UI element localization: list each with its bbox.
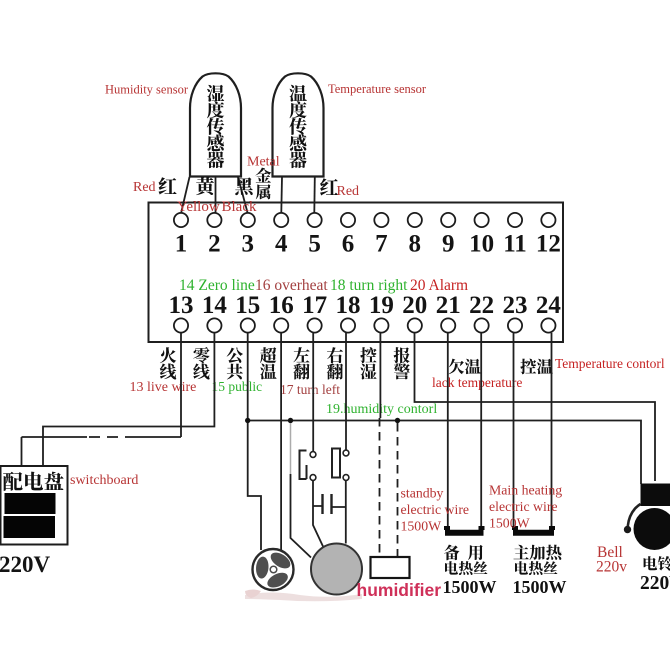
junction dot bus/humidifier — [395, 418, 400, 423]
humidifier box — [371, 557, 410, 578]
label pin 13 — [160, 347, 176, 379]
pin numbers 13-24 — [169, 292, 562, 319]
wire pin19 dashed to humidifier — [379, 418, 381, 556]
label standby heater hanzi line2 — [445, 561, 487, 575]
label black hanzi (pin3) — [235, 177, 253, 195]
label lack-temp hanzi (pins 21-22) — [448, 359, 480, 375]
svg-text:21: 21 — [436, 292, 461, 319]
svg-text:Temperature contorl: Temperature contorl — [555, 356, 665, 371]
svg-text:24: 24 — [536, 292, 562, 319]
switchboard hanzi — [3, 472, 64, 491]
svg-text:1500W: 1500W — [489, 516, 530, 531]
svg-text:1500W: 1500W — [443, 577, 497, 597]
svg-text:1: 1 — [175, 231, 188, 258]
svg-text:electric wire: electric wire — [401, 502, 470, 517]
junction dot pin15/bus — [245, 418, 250, 423]
svg-text:220V: 220V — [0, 552, 51, 577]
wire bus to motor faint upper — [290, 423, 292, 474]
svg-text:switchboard: switchboard — [70, 473, 138, 488]
motor M1 — [311, 544, 362, 595]
svg-text:1500W: 1500W — [513, 577, 567, 597]
common bus wire to bell — [248, 421, 641, 485]
fan F1 body — [253, 549, 294, 590]
wire pin13 to switchboard — [22, 333, 182, 466]
contact circle 17 bottom — [310, 475, 316, 481]
svg-text:electric wire: electric wire — [489, 499, 558, 514]
label red hanzi (pin1) — [159, 177, 177, 194]
svg-text:Main heating: Main heating — [489, 483, 562, 498]
svg-text:11: 11 — [503, 231, 527, 258]
bell B1 top block — [641, 484, 670, 507]
wire pin19 solid — [379, 333, 381, 418]
watermark smudge — [245, 590, 362, 602]
svg-text:14: 14 — [202, 292, 228, 319]
label pin 17 — [293, 347, 309, 379]
svg-text:5: 5 — [308, 231, 321, 258]
label main heater hanzi line1 — [513, 545, 561, 560]
svg-text:15: 15 — [235, 292, 260, 319]
svg-text:Humidity sensor: Humidity sensor — [105, 83, 189, 97]
wire pin15 down to fan — [248, 333, 261, 550]
wire pin21 to heater1 — [447, 333, 449, 530]
svg-text:Red: Red — [337, 184, 360, 199]
humidity sensor wire to pin 3 — [238, 177, 248, 213]
wire pin13 dashed section — [87, 436, 136, 438]
label pin 18 — [327, 347, 343, 379]
switchboard box — [1, 466, 68, 545]
svg-text:16 overheat: 16 overheat — [255, 277, 328, 294]
svg-text:20 Alarm: 20 Alarm — [410, 277, 468, 294]
svg-text:1500W: 1500W — [401, 519, 442, 534]
label main heater hanzi line2 — [515, 561, 557, 575]
svg-text:2: 2 — [208, 231, 221, 258]
svg-text:14 Zero line: 14 Zero line — [179, 277, 255, 294]
temperature sensor wire to pin 4 — [280, 177, 283, 213]
svg-text:19: 19 — [369, 292, 394, 319]
svg-text:9: 9 — [442, 231, 455, 258]
svg-text:10: 10 — [469, 231, 494, 258]
wire pin24 to heater2 — [551, 333, 553, 530]
svg-text:6: 6 — [342, 231, 355, 258]
label pin 19 — [360, 347, 376, 379]
label pin 15 — [227, 347, 243, 379]
switchboard breaker 2 — [4, 516, 56, 538]
svg-text:13 live wire: 13 live wire — [130, 380, 197, 395]
bell B1 striker ball — [624, 526, 631, 533]
svg-text:18 turn right: 18 turn right — [330, 277, 408, 294]
svg-text:18: 18 — [336, 292, 361, 319]
wire contact17 to motor — [313, 480, 328, 556]
wire pin22 to heater1 — [480, 333, 482, 530]
svg-text:23: 23 — [503, 292, 528, 319]
wire pin17 to contact — [312, 333, 314, 452]
humidity sensor text — [207, 85, 224, 168]
wire pin23 to heater2 — [513, 333, 515, 530]
svg-text:Metal: Metal — [247, 155, 280, 170]
heater R1 standby element — [445, 526, 484, 533]
wire bus to motor lower — [291, 474, 312, 558]
svg-text:Red: Red — [133, 180, 156, 195]
humidity sensor wire to pin 2 — [215, 177, 217, 213]
switchboard breaker 1 — [5, 493, 56, 514]
wire pin14 to switchboard — [43, 333, 214, 466]
wire bus dashed to humidifier — [397, 423, 399, 556]
svg-text:19.humidity contorl: 19.humidity contorl — [326, 402, 437, 417]
contact circle 18 top — [343, 450, 349, 456]
label pin 16 — [260, 347, 277, 379]
fan F1 blades — [246, 549, 293, 596]
relay coil K1 bracket — [300, 451, 307, 480]
svg-text:8: 8 — [409, 231, 422, 258]
svg-text:16: 16 — [269, 292, 294, 319]
bell B1 striker — [628, 504, 641, 526]
humidity sensor body — [190, 73, 241, 176]
bell B1 gong — [634, 508, 670, 550]
label red hanzi (pin5) — [320, 178, 338, 195]
temperature sensor text — [289, 85, 307, 168]
svg-text:17: 17 — [302, 292, 327, 319]
terminal block TB1 outline — [149, 203, 564, 343]
svg-text:humidifier: humidifier — [357, 580, 442, 600]
wire contact18 to motor — [345, 480, 347, 543]
label bell hanzi — [644, 556, 670, 571]
humidity sensor wire to pin 1 — [181, 177, 189, 212]
svg-text:15 public: 15 public — [212, 379, 263, 394]
label standby heater hanzi line1 — [444, 545, 483, 561]
svg-text:13: 13 — [169, 292, 194, 319]
contact circle 17 top — [310, 452, 316, 458]
label yellow hanzi (pin2) — [196, 177, 214, 195]
svg-text:220v: 220v — [596, 559, 627, 576]
svg-text:Black: Black — [222, 199, 257, 215]
svg-text:standby: standby — [401, 486, 444, 501]
junction dot bus/motor-feed — [288, 418, 293, 423]
wire pin20 to bell — [415, 333, 656, 481]
terminal circles row 1 (pins 1-12) — [174, 213, 556, 227]
wire pin18 to contact — [345, 333, 347, 451]
svg-text:20: 20 — [402, 292, 427, 319]
relay coil K2 rect — [332, 449, 340, 478]
capacitor C1 plates — [323, 494, 332, 514]
label metal hanzi vertical — [255, 168, 271, 200]
svg-text:lack temperature: lack temperature — [432, 375, 522, 390]
svg-text:220V: 220V — [640, 573, 670, 594]
heater R2 main element — [513, 526, 554, 533]
label pin 20 — [394, 347, 410, 379]
svg-text:17 turn left: 17 turn left — [280, 382, 340, 397]
capacitor C1 leads — [313, 506, 346, 507]
contact circle 18 bottom — [343, 475, 349, 481]
svg-text:Temperature sensor: Temperature sensor — [328, 82, 427, 96]
pin numbers 1-12 — [175, 231, 561, 258]
svg-text:Yellow: Yellow — [177, 199, 220, 215]
temperature sensor body — [273, 73, 324, 176]
label pin 14 — [193, 347, 209, 380]
svg-text:12: 12 — [536, 231, 561, 258]
svg-text:3: 3 — [242, 231, 255, 258]
terminal circles row 2 (pins 13-24) — [174, 318, 556, 332]
svg-text:22: 22 — [469, 292, 494, 319]
label temp-control hanzi (pins 23-24) — [520, 359, 553, 375]
temperature sensor wire to pin 5 — [313, 177, 316, 213]
svg-text:7: 7 — [375, 231, 388, 258]
wire pin16 to fan — [280, 333, 282, 551]
svg-text:4: 4 — [275, 231, 288, 258]
